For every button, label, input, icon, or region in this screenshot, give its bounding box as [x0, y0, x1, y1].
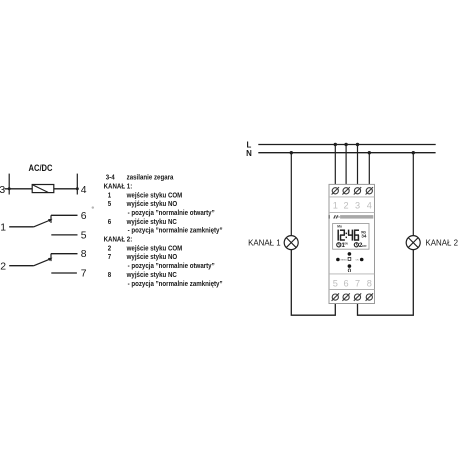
screw terminal 8 (bottom) — [366, 293, 373, 300]
svg-text:7: 7 — [108, 254, 112, 261]
svg-text:3-4: 3-4 — [106, 174, 115, 181]
svg-text:5: 5 — [108, 201, 112, 208]
svg-text:2: 2 — [344, 201, 349, 211]
svg-text:AC/DC: AC/DC — [29, 163, 53, 173]
button up — [348, 252, 352, 256]
screw terminal 7 (bottom) — [354, 293, 361, 300]
svg-text:KANAŁ 2: KANAŁ 2 — [426, 237, 458, 247]
switch S1 arm (channel 1) — [34, 220, 51, 227]
svg-text:MENU: MENU — [341, 259, 348, 261]
svg-text:8: 8 — [108, 272, 112, 279]
wire L to terminal 1 — [334, 145, 336, 189]
F&F logo block — [328, 215, 339, 219]
svg-text:wyjście styku NC: wyjście styku NC — [126, 272, 177, 279]
wire pin2 lead — [9, 265, 34, 267]
legend text block — [104, 174, 223, 288]
wire contact 8 lead — [51, 253, 78, 255]
wire contact 6 lead — [51, 214, 78, 216]
svg-text:- pozycja ”normalnie zamknięty: - pozycja ”normalnie zamknięty” — [128, 280, 223, 287]
node junction L/t2 — [344, 143, 347, 146]
svg-text:KANAŁ 2:: KANAŁ 2: — [104, 236, 133, 243]
svg-text:- pozycja ”normalnie otwarty”: - pozycja ”normalnie otwarty” — [128, 210, 215, 217]
svg-text:- pozycja ”normalnie zamknięty: - pozycja ”normalnie zamknięty” — [128, 227, 223, 234]
switch S2 arm (channel 2) — [34, 259, 51, 266]
button down — [348, 264, 352, 268]
wire pin1 lead — [9, 226, 34, 228]
wire clock element to pin4 — [54, 188, 78, 190]
svg-text:1: 1 — [0, 223, 6, 234]
button left — [336, 258, 340, 262]
screw terminal 6 (bottom) — [342, 293, 349, 300]
switch S2 arrowhead — [48, 258, 53, 261]
LCD colon — [346, 233, 347, 239]
svg-text:zasilanie zegara: zasilanie zegara — [127, 174, 174, 181]
LCD digit 6 — [354, 230, 359, 241]
node junction N/lamp1 — [290, 151, 293, 154]
wire lamp1 to terminal 5 — [291, 249, 335, 315]
wire N to terminal 4 — [368, 153, 370, 188]
LCD clock2 icon — [354, 243, 358, 247]
svg-text:wejście styku COM: wejście styku COM — [126, 192, 183, 199]
node junction L/t1 — [334, 143, 337, 146]
svg-text:N: N — [246, 149, 252, 158]
device separator above bottom numbers — [329, 273, 375, 275]
svg-text:wejście styku COM: wejście styku COM — [126, 245, 183, 252]
node terminal 3 junction — [8, 187, 11, 190]
svg-text:7: 7 — [355, 278, 360, 288]
stray dot artifact — [92, 206, 94, 208]
svg-text:5: 5 — [333, 278, 338, 288]
svg-text:5: 5 — [81, 230, 87, 241]
button right — [360, 258, 364, 262]
svg-text:8: 8 — [81, 249, 87, 260]
terminal 4 tick — [76, 174, 78, 195]
lamp KANAL 1 symbol — [284, 236, 298, 250]
wire NO contact riser ch2 — [50, 254, 52, 262]
wire lamp2 to terminal 7 — [358, 249, 414, 315]
wire N to lamp2 — [412, 153, 414, 236]
screw terminal 1 (top) — [332, 187, 339, 194]
svg-text:4: 4 — [81, 185, 87, 196]
device separator above bottom terminals — [329, 289, 375, 291]
reset omega symbol — [348, 269, 351, 272]
svg-text:KANAŁ 1:: KANAŁ 1: — [104, 183, 133, 190]
LCD digit 2 — [340, 230, 345, 241]
svg-text:L: L — [247, 140, 252, 149]
wire line L — [258, 144, 435, 146]
wire NO contact riser ch1 — [50, 215, 52, 223]
svg-text:- pozycja ”normalnie otwarty”: - pozycja ”normalnie otwarty” — [128, 263, 215, 270]
LCD clock1 icon — [337, 243, 341, 247]
screw terminal 4 (top) — [366, 187, 373, 194]
center key symbol — [348, 257, 351, 260]
node terminal 4 junction — [76, 187, 79, 190]
svg-text:OFF: OFF — [362, 245, 367, 248]
svg-text:6: 6 — [344, 278, 349, 288]
svg-text:1: 1 — [333, 201, 338, 211]
wire line N — [258, 152, 435, 154]
clock motor element (box with diagonal) — [32, 185, 54, 193]
wire contact 7 lead — [51, 272, 77, 274]
svg-text:2: 2 — [0, 261, 6, 272]
switch S1 arrowhead — [48, 219, 53, 222]
svg-text:6: 6 — [108, 218, 112, 225]
svg-text:8: 8 — [367, 278, 372, 288]
device separator under top numbers — [329, 212, 375, 214]
svg-text:wyjście styku NO: wyjście styku NO — [126, 201, 178, 208]
wire contact 5 lead — [51, 234, 77, 236]
front gray bar — [340, 215, 373, 219]
svg-text:2: 2 — [108, 245, 112, 252]
svg-text:Mo: Mo — [337, 224, 342, 228]
terminal 3 tick — [8, 174, 10, 195]
device separator under top terminals — [329, 196, 375, 198]
LCD digit 4 — [348, 230, 353, 241]
screw terminal 5 (bottom) — [332, 293, 339, 300]
svg-text:3: 3 — [0, 185, 5, 196]
svg-text:4: 4 — [367, 201, 372, 211]
timer device body — [329, 184, 375, 303]
screw terminal 3 (top) — [354, 187, 361, 194]
svg-text:34: 34 — [361, 235, 367, 240]
lamp KANAL 2 symbol — [406, 236, 420, 250]
LCD digit 1 — [337, 230, 339, 241]
svg-text:7: 7 — [81, 269, 87, 280]
wire L to terminal 2 — [345, 145, 347, 189]
screw terminal 2 (top) — [342, 187, 349, 194]
svg-text:wyjście styku NO: wyjście styku NO — [126, 254, 178, 261]
LCD panel — [333, 224, 369, 250]
node junction N/t4 — [368, 151, 371, 154]
svg-text:wyjście styku NC: wyjście styku NC — [126, 218, 177, 225]
svg-text:KANAŁ 1: KANAŁ 1 — [248, 237, 281, 247]
wire L to terminal 3 — [357, 145, 359, 189]
svg-text:1: 1 — [108, 192, 112, 199]
node junction L/t3 — [356, 143, 359, 146]
svg-text:ON: ON — [344, 242, 348, 245]
svg-text:6: 6 — [81, 211, 87, 222]
wire pin3 to clock element — [5, 188, 33, 190]
svg-text:3: 3 — [355, 201, 360, 211]
wire N to lamp1 — [290, 153, 292, 236]
node junction N/lamp2 — [412, 151, 415, 154]
